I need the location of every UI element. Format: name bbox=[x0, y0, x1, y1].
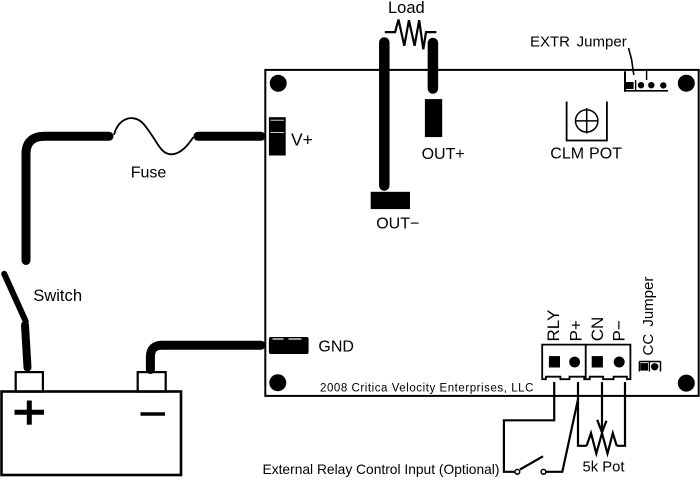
battery post minus bbox=[138, 372, 166, 392]
load resistor symbol bbox=[385, 20, 437, 50]
mounting hole top-left bbox=[270, 75, 287, 92]
terminal CN square bbox=[592, 356, 603, 367]
svg-text:CLM POT: CLM POT bbox=[550, 146, 622, 163]
terminal P+ circle bbox=[569, 357, 580, 368]
svg-text:Load: Load bbox=[388, 0, 425, 17]
wire CN wiper arrow bbox=[597, 382, 606, 433]
5k pot resistor bbox=[587, 433, 617, 453]
wire battery minus to GND bbox=[150, 345, 261, 369]
fuse symbol bbox=[114, 118, 194, 154]
terminal block divider bbox=[585, 345, 587, 379]
svg-text:CC Jumper: CC Jumper bbox=[640, 277, 657, 356]
svg-text:5k Pot: 5k Pot bbox=[583, 460, 625, 476]
svg-text:OUT−: OUT− bbox=[376, 216, 419, 233]
mounting hole top-right bbox=[678, 75, 695, 92]
battery minus sign bbox=[141, 412, 166, 416]
wire load right lead to OUT+ bbox=[428, 43, 439, 89]
wire P+ to 5k pot left bbox=[578, 382, 587, 446]
GND pad bbox=[269, 337, 309, 354]
svg-text:OUT+: OUT+ bbox=[422, 146, 465, 163]
mounting hole bottom-left bbox=[269, 374, 286, 391]
CC jumper header bbox=[639, 362, 660, 372]
mounting hole bottom-right bbox=[678, 375, 695, 392]
external switch contact 1 bbox=[515, 469, 520, 474]
wire RLY to external switch bbox=[504, 382, 554, 472]
OUT+ pad bbox=[425, 99, 442, 137]
external switch blade bbox=[520, 456, 543, 469]
wire switch contact 2 to P+ bbox=[546, 399, 578, 472]
wire switch to battery plus post bbox=[25, 325, 28, 368]
EXTR jumper header bbox=[624, 70, 668, 92]
terminal P- circle bbox=[614, 357, 625, 368]
battery post plus bbox=[16, 372, 43, 392]
OUT- pad bbox=[371, 192, 410, 209]
V+ pad bbox=[269, 117, 286, 155]
wire fuse to V+ bbox=[198, 132, 261, 141]
svg-text:P−: P− bbox=[609, 320, 628, 341]
leader line EXTR jumper bbox=[629, 48, 634, 75]
svg-text:Fuse: Fuse bbox=[131, 164, 167, 181]
CLM POT symbol bbox=[567, 102, 607, 141]
external switch contact 2 bbox=[541, 469, 546, 474]
battery plus sign bbox=[15, 401, 45, 425]
svg-text:GND: GND bbox=[318, 338, 354, 355]
wire battery plus to fuse (with corner) bbox=[26, 136, 109, 260]
svg-text:CN: CN bbox=[588, 317, 607, 342]
svg-text:P+: P+ bbox=[566, 320, 585, 341]
wire load left lead to OUT- bbox=[379, 43, 390, 186]
terminal RLY square bbox=[549, 356, 560, 367]
wire P- to 5k pot right bbox=[617, 382, 625, 446]
svg-text:RLY: RLY bbox=[544, 310, 563, 342]
battery body bbox=[2, 392, 182, 476]
terminal block outline bbox=[542, 345, 630, 380]
svg-text:2008 Critica Velocity Enterpri: 2008 Critica Velocity Enterprises, LLC bbox=[320, 383, 534, 395]
svg-text:Switch: Switch bbox=[33, 286, 82, 305]
svg-text:External Relay Control Input (: External Relay Control Input (Optional) bbox=[263, 462, 500, 477]
svg-text:EXTR Jumper: EXTR Jumper bbox=[530, 33, 627, 50]
PCB board outline bbox=[265, 70, 698, 396]
svg-text:V+: V+ bbox=[291, 129, 313, 149]
switch blade bbox=[4, 274, 26, 322]
